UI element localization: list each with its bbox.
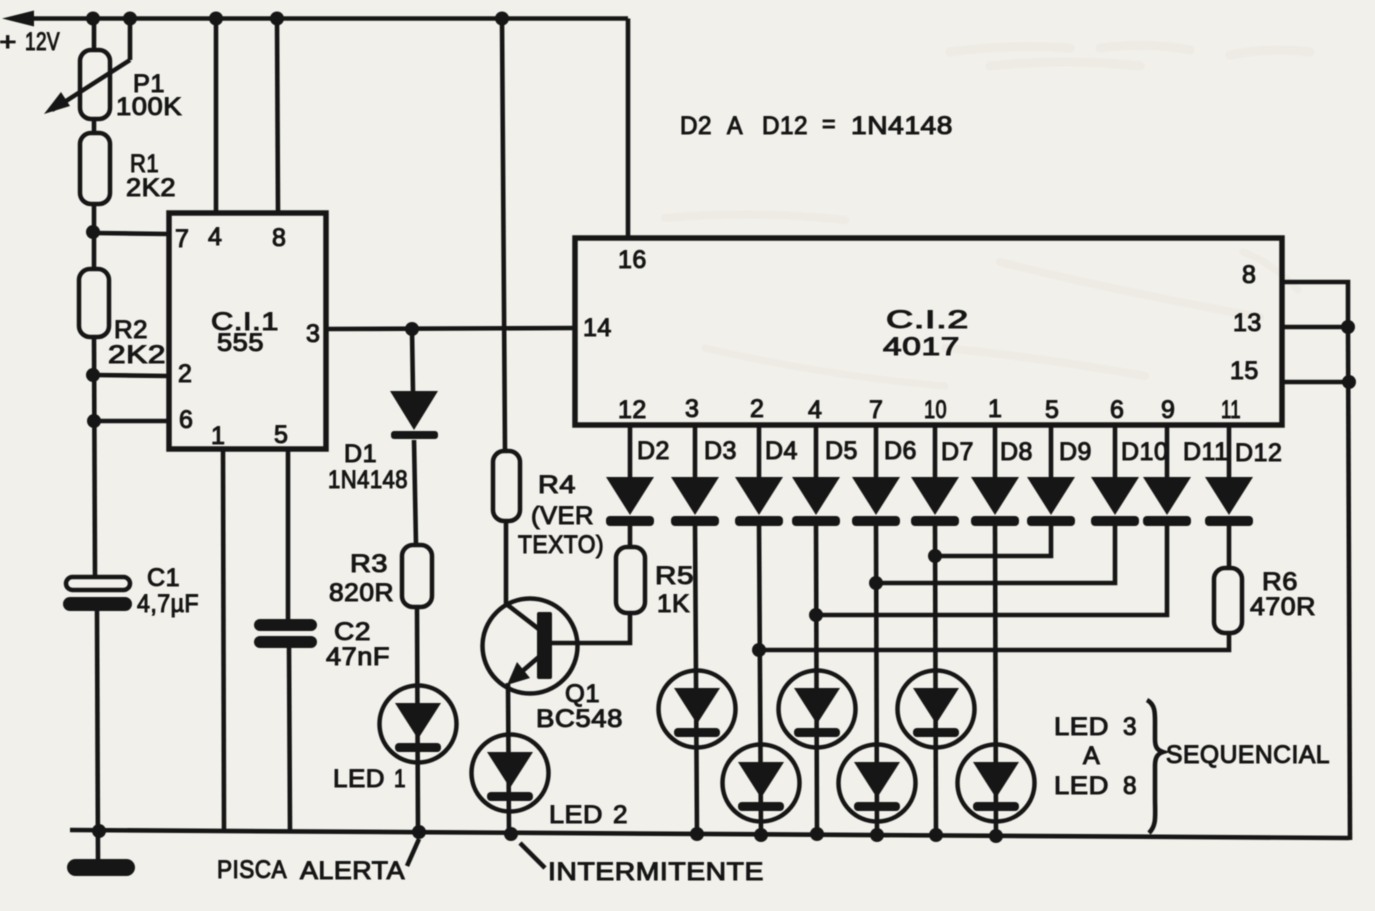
svg-text:9: 9 xyxy=(1161,396,1175,424)
node: rail to R4 xyxy=(495,12,509,26)
bottom ground rail xyxy=(70,830,1349,838)
diode D12 xyxy=(1205,477,1253,526)
svg-text:D6: D6 xyxy=(884,437,917,465)
svg-text:10: 10 xyxy=(924,396,947,424)
wire rail to pin 16 xyxy=(626,19,631,239)
wire pin 15 stub xyxy=(1282,380,1349,385)
svg-text:555: 555 xyxy=(217,329,264,357)
node: rail to P1 xyxy=(86,12,100,26)
node: LED4 rail xyxy=(754,828,768,842)
diode D9 xyxy=(1027,477,1075,526)
diode D4 xyxy=(735,477,783,526)
svg-text:13: 13 xyxy=(1233,309,1262,337)
svg-text:LED: LED xyxy=(1054,713,1109,741)
node: LED7 rail xyxy=(929,828,943,842)
svg-text:BC548: BC548 xyxy=(536,705,623,733)
wire Q1 base to R5 xyxy=(551,613,630,643)
svg-text:2: 2 xyxy=(750,395,764,423)
wire D5 to LED5 to rail xyxy=(816,523,817,834)
diode D3 xyxy=(671,477,719,526)
wire pin 1 to rail xyxy=(223,449,224,832)
node: rail to pin4 xyxy=(209,12,223,26)
node: LED5 rail xyxy=(810,827,824,841)
svg-text:D5: D5 xyxy=(825,437,858,465)
node: D6/D10 junction xyxy=(869,576,883,590)
resistor R3 xyxy=(402,545,432,607)
svg-text:1: 1 xyxy=(394,765,406,793)
wire D9 jog to LED7 column xyxy=(935,523,1051,556)
transistor Q1 BC548 xyxy=(483,599,578,694)
node: pin3 to D1 xyxy=(405,322,419,336)
wire R1 to node xyxy=(92,204,97,269)
wire pin3 to D3 xyxy=(693,425,698,478)
svg-text:(VER: (VER xyxy=(531,502,594,530)
svg-text:+: + xyxy=(0,28,17,56)
wire D3 to LED3 to rail xyxy=(695,523,697,834)
svg-text:LED: LED xyxy=(549,801,603,829)
svg-text:1N4148: 1N4148 xyxy=(851,112,953,140)
svg-text:8: 8 xyxy=(1123,772,1137,800)
svg-text:D9: D9 xyxy=(1059,438,1092,466)
wire to pin 7 xyxy=(93,233,169,234)
svg-text:6: 6 xyxy=(1110,396,1124,424)
svg-text:12: 12 xyxy=(618,396,647,424)
leader INTERMITENTE xyxy=(520,843,545,868)
diode D6 xyxy=(852,477,900,526)
svg-text:LED: LED xyxy=(1054,772,1109,800)
svg-text:2K2: 2K2 xyxy=(126,174,176,202)
node: LED6 rail xyxy=(870,828,884,842)
IC C.I.2 4017 xyxy=(575,238,1282,425)
svg-text:6: 6 xyxy=(179,406,193,434)
svg-text:1: 1 xyxy=(988,395,1002,423)
brace xyxy=(1147,700,1163,833)
resistor R5 xyxy=(616,547,645,613)
LED2 xyxy=(472,735,549,812)
LED7 xyxy=(898,671,975,748)
svg-text:D3: D3 xyxy=(704,437,737,465)
svg-text:D8: D8 xyxy=(1000,438,1033,466)
svg-text:TEXTO): TEXTO) xyxy=(518,531,604,559)
wire pin11 to D12 xyxy=(1227,425,1232,478)
ground xyxy=(67,859,135,876)
node: rail to P1 wiper xyxy=(123,12,137,26)
node: LED2 to rail xyxy=(504,827,518,841)
svg-text:820R: 820R xyxy=(329,579,394,607)
wire R6 jog to LED4 column xyxy=(759,633,1229,650)
wire node to D1 xyxy=(412,329,413,392)
diode D11 xyxy=(1143,477,1191,526)
diode D1 1N4148 xyxy=(390,391,438,439)
svg-text:D12: D12 xyxy=(1235,439,1282,467)
node: rail to pin8 xyxy=(270,12,284,26)
svg-text:INTERMITENTE: INTERMITENTE xyxy=(548,858,764,886)
wire C2 to rail xyxy=(289,648,290,832)
svg-text:8: 8 xyxy=(1242,261,1256,289)
svg-text:4: 4 xyxy=(808,396,822,424)
svg-text:C.I.2: C.I.2 xyxy=(886,306,969,334)
wire D2 to R5 xyxy=(628,523,633,548)
wire D11 jog to LED5 column xyxy=(816,523,1167,615)
svg-text:5: 5 xyxy=(1045,396,1059,424)
svg-text:47nF: 47nF xyxy=(326,643,390,671)
wire pin2 to D4 xyxy=(757,425,762,478)
LED5 xyxy=(779,671,856,748)
wire R4 to Q1 collector xyxy=(504,521,509,607)
wire D4 to LED4 to rail xyxy=(759,523,761,835)
LED4 xyxy=(723,745,800,822)
+12V supply rail (top) xyxy=(2,11,628,27)
LED6 xyxy=(839,745,916,822)
node: pin2 junction xyxy=(86,368,100,382)
diode D5 xyxy=(792,477,840,526)
wire pin7 to D6 xyxy=(874,425,879,478)
resistor R1 xyxy=(80,133,110,204)
svg-text:A: A xyxy=(727,112,743,140)
svg-text:7: 7 xyxy=(175,225,189,253)
svg-text:R3: R3 xyxy=(350,550,388,578)
wire R3 to LED1 xyxy=(417,607,418,832)
svg-text:5: 5 xyxy=(274,421,288,449)
svg-text:16: 16 xyxy=(618,246,647,274)
node: LED1 to rail xyxy=(412,825,426,839)
wire to pin 2 xyxy=(93,375,169,376)
svg-text:15: 15 xyxy=(1230,357,1259,385)
wire D6 to LED6 to rail xyxy=(876,523,877,835)
svg-text:11: 11 xyxy=(1221,396,1241,424)
svg-text:2: 2 xyxy=(613,801,628,829)
svg-text:Q1: Q1 xyxy=(565,680,600,708)
svg-text:R2: R2 xyxy=(114,316,148,344)
svg-text:D11: D11 xyxy=(1183,438,1229,466)
svg-text:A: A xyxy=(1083,742,1100,770)
node: pin7 junction xyxy=(86,225,100,239)
node: ground rail junction xyxy=(92,824,106,838)
wire C1 to ground rail xyxy=(97,611,98,860)
node: LED8 rail xyxy=(989,829,1003,843)
wire pin12 to D2 xyxy=(628,425,633,478)
svg-text:2: 2 xyxy=(178,360,192,388)
wire rail to R4 xyxy=(502,19,505,452)
svg-text:C1: C1 xyxy=(147,564,180,592)
diode D2 xyxy=(606,477,654,526)
svg-text:3: 3 xyxy=(1123,713,1137,741)
LED3 xyxy=(659,671,736,748)
wire D1 to R3 xyxy=(414,440,416,545)
wire rail to pin 8 xyxy=(277,19,278,214)
diode D10 xyxy=(1091,477,1139,526)
svg-text:3: 3 xyxy=(306,320,320,348)
wire xyxy=(14,16,628,21)
svg-text:14: 14 xyxy=(583,314,612,342)
wire pin6 to D10 xyxy=(1113,425,1118,478)
svg-text:SEQUENCIAL: SEQUENCIAL xyxy=(1166,741,1330,769)
svg-text:4: 4 xyxy=(208,223,222,251)
svg-text:100K: 100K xyxy=(116,93,182,121)
node: pin15 right rail xyxy=(1342,375,1356,389)
wire pin 3 to pin 14 xyxy=(326,328,575,329)
svg-text:C2: C2 xyxy=(334,618,371,646)
svg-text:D4: D4 xyxy=(765,437,798,465)
wire D10 jog to LED6 column xyxy=(876,523,1115,583)
svg-text:3: 3 xyxy=(685,395,699,423)
wire pin 13 stub xyxy=(1282,325,1348,330)
wire rail to pin 4 xyxy=(214,19,219,214)
wire pin1 to D8 xyxy=(993,425,998,478)
svg-text:D2: D2 xyxy=(637,437,670,465)
svg-text:2K2: 2K2 xyxy=(108,341,166,369)
svg-text:R4: R4 xyxy=(538,471,576,499)
svg-text:=: = xyxy=(822,110,836,138)
svg-text:D10: D10 xyxy=(1121,438,1168,466)
capacitor C1 xyxy=(63,577,132,611)
wire D7 to LED7 to rail xyxy=(935,523,936,835)
svg-text:1K: 1K xyxy=(657,590,690,618)
wire pin5 to D9 xyxy=(1049,425,1054,478)
resistor R6 xyxy=(1214,568,1242,633)
potentiometer P1 xyxy=(44,20,130,119)
capacitor C2 xyxy=(254,619,317,648)
svg-text:1: 1 xyxy=(211,422,225,450)
node: pin13 right rail xyxy=(1341,320,1355,334)
node: D5/D11 junction xyxy=(809,608,823,622)
svg-text:470R: 470R xyxy=(1250,593,1316,621)
wire Q1 emitter to LED2 xyxy=(508,683,509,834)
wire P1 to R1 xyxy=(92,119,97,133)
wire pin4 to D5 xyxy=(814,425,819,478)
diode D8 xyxy=(971,477,1019,526)
svg-text:12V: 12V xyxy=(25,28,60,56)
svg-text:D12: D12 xyxy=(762,112,808,140)
wire pin9 to D11 xyxy=(1165,425,1170,478)
leader PISCA ALERTA xyxy=(407,839,419,866)
resistor R2 xyxy=(79,269,109,337)
resistor R4 xyxy=(493,451,520,521)
svg-text:R6: R6 xyxy=(1262,568,1298,596)
svg-text:D2: D2 xyxy=(680,112,712,140)
wire right rail down xyxy=(1348,327,1350,840)
diode D7 xyxy=(911,477,959,526)
wire D8 to LED8 to rail xyxy=(995,523,996,836)
node: D7/D9 junction xyxy=(928,549,942,563)
svg-text:D1: D1 xyxy=(344,440,377,468)
svg-text:D7: D7 xyxy=(941,438,974,466)
node: D4/R6 junction xyxy=(752,643,766,657)
node: LED3 rail xyxy=(690,827,704,841)
svg-text:R5: R5 xyxy=(655,562,694,590)
wire rail to P1 xyxy=(92,19,97,51)
svg-text:1N4148: 1N4148 xyxy=(328,466,408,494)
wire pin 5 to C2 xyxy=(286,449,291,619)
svg-text:4017: 4017 xyxy=(883,333,960,361)
wire D12 to R6 xyxy=(1227,523,1232,568)
svg-text:8: 8 xyxy=(272,224,286,252)
wire R2 down xyxy=(94,337,95,577)
node: pin6 junction xyxy=(87,414,101,428)
wire pin 8 stub xyxy=(1282,282,1348,327)
LED8 xyxy=(958,745,1035,822)
svg-text:PISCA: PISCA xyxy=(217,856,287,884)
svg-text:7: 7 xyxy=(869,396,883,424)
svg-text:4,7µF: 4,7µF xyxy=(137,590,199,618)
wire pin10 to D7 xyxy=(933,425,938,478)
svg-text:LED: LED xyxy=(333,765,385,793)
wire to pin 6 xyxy=(94,419,169,424)
svg-text:ALERTA: ALERTA xyxy=(300,857,405,885)
op IC C.I.1 555 xyxy=(169,213,326,449)
LED1 xyxy=(380,686,457,763)
